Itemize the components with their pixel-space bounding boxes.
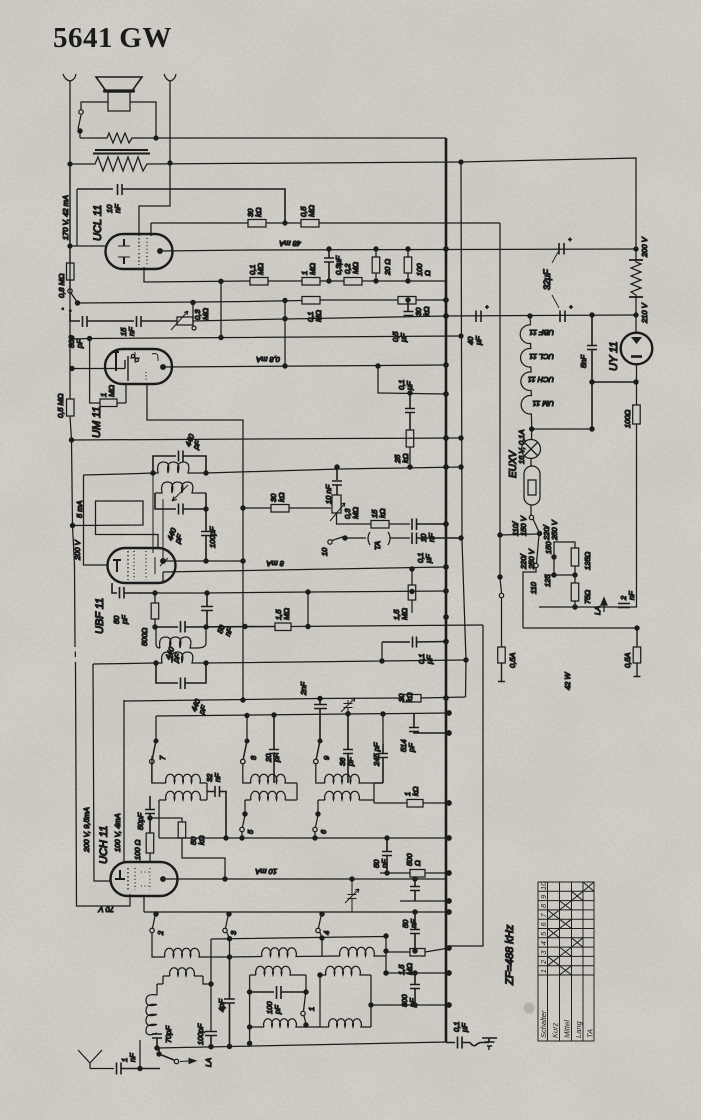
svg-text:5 mA: 5 mA [75, 500, 84, 518]
wire T2 left rail to UBF11 anode [152, 473, 154, 553]
junction [154, 136, 158, 140]
svg-text:0,5A: 0,5A [508, 653, 517, 668]
coil B2 [250, 974, 256, 976]
svg-text:UCH 11: UCH 11 [98, 826, 110, 864]
svg-text:2nF: 2nF [299, 682, 308, 696]
osc block A [152, 933, 165, 957]
resistor 30k lower [398, 297, 416, 305]
terminal fork left [63, 74, 76, 164]
svg-text:10 mA: 10 mA [255, 867, 277, 876]
capacitor 4pF [224, 957, 235, 1046]
line y438 [72, 438, 462, 440]
switch 6 [316, 815, 319, 827]
LA switch [157, 1052, 161, 1056]
svg-text:UCL 11: UCL 11 [92, 205, 104, 241]
svg-text:TA: TA [373, 541, 382, 550]
T3 secondary coil in line [93, 652, 206, 664]
LA arrow label [180, 1059, 196, 1064]
svg-text:UBF 11: UBF 11 [529, 328, 554, 337]
resistor 1,5M AVC [275, 623, 291, 631]
svg-text:50pF: 50pF [136, 812, 145, 830]
svg-text:0,3MΩ: 0,3MΩ [193, 308, 210, 320]
line 210V y316 [193, 315, 636, 321]
svg-text:Kurz: Kurz [551, 1022, 560, 1038]
X marks [583, 882, 594, 891]
capacitor 20pF [269, 715, 279, 783]
line C y281 [144, 267, 250, 282]
ground [482, 1038, 497, 1050]
selector resistor network [523, 568, 637, 628]
svg-text:245 pF: 245 pF [372, 742, 381, 767]
MAIN BUS [445, 138, 448, 1042]
resistor 100R vertical [407, 249, 409, 281]
line y1005 [371, 1004, 449, 1006]
line y338 grid UM11 [72, 336, 461, 339]
svg-text:70pF: 70pF [164, 1025, 173, 1043]
band block C [316, 764, 325, 783]
svg-text:5nF: 5nF [579, 355, 588, 368]
IF transformer T2 cap 440pF bridge [153, 451, 206, 474]
tube UBF11 [108, 548, 176, 583]
svg-text:2: 2 [539, 959, 548, 965]
svg-text:50nF: 50nF [372, 859, 389, 868]
capacitor 0,1uF col [405, 393, 415, 430]
line y393 [378, 366, 446, 394]
resistor 30k ser [403, 695, 421, 703]
band block B [243, 764, 251, 783]
svg-text:100 V, 4mA: 100 V, 4mA [113, 813, 122, 852]
ground cap 0,1uF [446, 1037, 489, 1049]
resistor R primary (zigzag) [80, 133, 446, 143]
osc coil feed [151, 756, 153, 783]
svg-text:170 V, 42 mA: 170 V, 42 mA [61, 195, 70, 240]
T2 cap 440pF bottom [155, 493, 206, 515]
svg-text:0,1MΩ: 0,1MΩ [248, 263, 265, 275]
resistor 30k vol [271, 505, 289, 513]
trimmer osc 2 [345, 879, 359, 912]
capacitor 245pF [374, 744, 388, 783]
svg-text:Mittel: Mittel [563, 1020, 572, 1038]
line 8mA y572 [163, 567, 446, 583]
capacitor 36pF [343, 714, 353, 783]
bus junctions [444, 247, 448, 251]
line 10mA y879 [166, 878, 446, 880]
resistor 0,5M [301, 220, 319, 228]
svg-text:10: 10 [539, 881, 548, 890]
svg-text:75Ω: 75Ω [583, 590, 592, 604]
line D y300 [284, 300, 286, 366]
line y714 [156, 713, 449, 716]
T3 cap 440pF bottom bridge [156, 663, 206, 689]
svg-text:30kΩ: 30kΩ [397, 692, 414, 702]
switch 3 [227, 912, 231, 916]
svg-text:Lang: Lang [574, 1020, 583, 1038]
wire T2 sec tap to diode [162, 499, 164, 561]
svg-text:1: 1 [539, 969, 548, 973]
resistor 20R vertical [375, 249, 377, 281]
svg-text:200 V: 200 V [640, 236, 649, 258]
svg-text:1,5MΩ: 1,5MΩ [392, 608, 409, 620]
switch 1 [304, 994, 306, 1011]
capacitor 1nF ant [117, 1063, 161, 1075]
ferrite coil vertical [157, 984, 163, 995]
wire speaker left to switch [81, 102, 108, 110]
junction [168, 161, 172, 165]
resistor 500R [154, 593, 156, 627]
svg-text:8 mA: 8 mA [266, 559, 284, 568]
tube UCH11 [111, 862, 178, 896]
svg-text:0,2MΩ: 0,2MΩ [343, 262, 360, 274]
fuse lamp shunt [530, 459, 532, 467]
AVC branch down [449, 625, 483, 946]
wire pot to line y524 [337, 513, 372, 524]
grid components UCH11 [145, 796, 155, 833]
svg-text:Schalter: Schalter [539, 1010, 548, 1038]
resistor 1M [302, 278, 320, 286]
line y838 [159, 837, 449, 839]
svg-text:210 V: 210 V [640, 302, 649, 324]
svg-text:100pF: 100pF [208, 526, 217, 548]
svg-text:0,8 MΩ: 0,8 MΩ [57, 273, 66, 298]
svg-text:100pF: 100pF [196, 1023, 205, 1045]
svg-text:0,5 MΩ: 0,5 MΩ [56, 393, 65, 418]
line 1,5M osc y947 [386, 951, 410, 953]
capacitor 800pF [70, 313, 134, 327]
capacitor 50nF left [382, 838, 392, 873]
T3 primary coil bridge [156, 627, 206, 648]
line y803 1k [374, 802, 407, 804]
junction [68, 162, 72, 166]
capacitor C 10nF coupling [77, 184, 285, 223]
V8 vertical [461, 162, 466, 660]
capacitor 5nF [590, 313, 594, 317]
line y303-300 grid bias line [78, 301, 302, 304]
capacitor 10nF ser [412, 519, 446, 531]
speaker [96, 77, 142, 91]
potentiometer 0,3M vol [332, 495, 341, 513]
svg-text:15kΩ: 15kΩ [370, 508, 387, 518]
capacitor 100pF in B [250, 986, 306, 999]
svg-text:70 V: 70 V [98, 905, 114, 914]
svg-text:0,5MΩ: 0,5MΩ [299, 205, 316, 217]
svg-text:0,1MΩ: 0,1MΩ [306, 310, 323, 322]
switch 9 [318, 739, 322, 743]
svg-text:30kΩ: 30kΩ [414, 306, 431, 316]
svg-text:100Ω: 100Ω [623, 409, 632, 428]
capacitor 514pF [409, 714, 449, 733]
svg-text:48 mA: 48 mA [279, 239, 301, 248]
electrolytic 32uF b [560, 305, 573, 322]
switch below 0,8M [69, 280, 71, 289]
svg-text:110: 110 [529, 581, 538, 594]
resistor 0,5M left [70, 164, 130, 906]
line 0,8mA y366 [163, 365, 446, 367]
junction [68, 244, 72, 248]
UM11 interior [72, 368, 125, 370]
screen feed path [73, 501, 159, 548]
svg-text:200 V, 9,5mA: 200 V, 9,5mA [82, 807, 91, 853]
svg-text:TA: TA [586, 1029, 595, 1038]
svg-text:ZF=488 kHz: ZF=488 kHz [504, 924, 516, 986]
electrolytic 40uF [476, 305, 489, 322]
svg-text:20 Ω: 20 Ω [383, 259, 392, 276]
tube UY11 [635, 315, 637, 333]
svg-text:15nF: 15nF [119, 327, 136, 336]
tube UM11 [105, 349, 172, 384]
voltage selector [529, 515, 533, 519]
capacitor 50nF A [410, 879, 420, 901]
capacitor 0,1uF ser [412, 533, 461, 545]
T2 secondary coil [155, 482, 206, 493]
svg-text:UBF 11: UBF 11 [94, 598, 106, 634]
junction [283, 221, 287, 225]
LA arrow mains [601, 598, 607, 612]
capacitor 10nF vol [332, 467, 342, 495]
trimmer osc top [341, 698, 355, 714]
svg-text:50nF: 50nF [401, 919, 418, 928]
line 200V y249 [160, 249, 636, 251]
TA pickup [368, 532, 390, 545]
svg-text:0,8 mA: 0,8 mA [256, 355, 280, 364]
switch 5 [243, 815, 246, 827]
resistor 1M UM11 [90, 339, 100, 404]
line y660 [206, 642, 466, 663]
wire anode up [150, 223, 152, 236]
svg-text:40μF: 40μF [466, 336, 483, 346]
switch speaker [79, 110, 83, 114]
band block A coils [152, 764, 166, 783]
capacitor 0,1uF col2 [382, 637, 446, 648]
svg-text:UM 11: UM 11 [91, 406, 103, 438]
capacitor 50nF B [410, 912, 420, 951]
capacitor 0,3uF [324, 249, 334, 281]
svg-text:0,5A: 0,5A [623, 653, 632, 668]
svg-text:150: 150 [544, 541, 553, 554]
capacitor 2nF osc [318, 696, 322, 700]
transformer core bars [93, 150, 150, 154]
svg-text:125Ω: 125Ω [583, 551, 592, 570]
bottom line LA y1048 [157, 1042, 446, 1048]
dropper zigzag [631, 249, 641, 315]
svg-text:36pF: 36pF [338, 757, 355, 767]
svg-text:32μF: 32μF [542, 269, 552, 290]
switch 8 [246, 716, 248, 741]
svg-text:UCL 11: UCL 11 [529, 352, 554, 361]
switch 2 [155, 912, 156, 916]
capacitor 50pF cathode [112, 583, 155, 599]
svg-text:2: 2 [156, 930, 165, 936]
wire UM11 out right [147, 384, 243, 700]
svg-text:125: 125 [543, 574, 552, 587]
line y627 with 440pF inline [155, 621, 275, 633]
switch 7 [155, 716, 157, 740]
capacitor 15nF [137, 316, 178, 327]
line y901 [400, 900, 449, 902]
svg-text:LA: LA [204, 1058, 213, 1067]
lamp EUXV [531, 429, 533, 440]
switch 4 [320, 912, 324, 916]
svg-text:100 Ω: 100 Ω [133, 839, 142, 860]
svg-text:30kΩ: 30kΩ [246, 207, 263, 217]
osc block C [340, 947, 386, 956]
capacitor 32nF [207, 786, 226, 838]
svg-text:50pF: 50pF [112, 615, 129, 625]
capacitor 0,5uF [404, 300, 414, 316]
svg-text:50kΩ: 50kΩ [189, 835, 206, 845]
resistor 30k [248, 220, 266, 228]
mains lead left [500, 223, 538, 535]
svg-text:5641 GW: 5641 GW [53, 22, 172, 54]
svg-text:UM 11: UM 11 [532, 399, 554, 408]
svg-text:16 V, 0,1A: 16 V, 0,1A [517, 430, 526, 464]
svg-text:20pF: 20pF [264, 753, 281, 763]
resistor 15k [371, 521, 389, 529]
svg-text:1: 1 [307, 1007, 316, 1011]
svg-text:4: 4 [322, 931, 331, 935]
capacitor 100pF osc [205, 1032, 217, 1047]
coil B3 in bottom line [250, 1026, 264, 1028]
switch 10 [328, 540, 332, 544]
electrolytic 32uF a [559, 238, 572, 255]
wire fork2 to tube grid [139, 163, 170, 236]
line y912 [144, 896, 449, 912]
tube UCL11 [106, 234, 173, 269]
svg-text:LA: LA [593, 606, 602, 615]
heater chain [529, 316, 532, 325]
svg-text:25kΩ: 25kΩ [393, 453, 410, 464]
line y700 [124, 698, 403, 701]
terminal fork right [164, 74, 176, 163]
junction [459, 160, 463, 164]
resistor 25k col [406, 430, 414, 447]
antenna [78, 1050, 114, 1069]
resistor 1,5M vertical [411, 569, 413, 613]
svg-text:30kΩ: 30kΩ [269, 492, 286, 502]
paper smudge [524, 1003, 535, 1014]
line y973 [386, 972, 449, 974]
svg-text:1,5MΩ: 1,5MΩ [274, 608, 291, 620]
resistor 0,1M lower [302, 297, 320, 305]
wire speaker right down [130, 102, 156, 138]
svg-text:500Ω: 500Ω [140, 627, 149, 646]
capacitor 800pF [410, 973, 420, 1005]
svg-text:0,3μF: 0,3μF [334, 255, 343, 275]
svg-text:32nF: 32nF [205, 773, 222, 782]
line y873 500R [380, 872, 410, 874]
svg-text:UCH 11: UCH 11 [528, 375, 554, 384]
resistor 0,8M vertical [69, 164, 71, 263]
detector line y561 [165, 560, 243, 562]
supply rails UCH11 [93, 664, 111, 881]
line y223 anode [151, 222, 248, 224]
diode load line y593 [155, 591, 446, 593]
svg-text:0,3MΩ: 0,3MΩ [343, 507, 360, 519]
svg-text:4: 4 [539, 941, 548, 945]
svg-text:42 W: 42 W [563, 672, 572, 690]
T2 primary coil in line [151, 471, 155, 475]
line y467 anode [84, 467, 462, 475]
svg-text:10: 10 [320, 547, 329, 556]
svg-text:4pF: 4pF [217, 999, 226, 1012]
resistor 0,1M [250, 278, 268, 286]
grid cap UCH11 [123, 700, 125, 863]
wire grid left [70, 189, 107, 246]
resistor R secondary (zigzag) [70, 157, 636, 249]
capacitor 2nF mains [618, 604, 630, 608]
svg-text:10nF: 10nF [105, 204, 122, 213]
mains lead right [634, 628, 641, 677]
volume cluster: line y508 [243, 507, 271, 509]
osc block B coil B1 in line [230, 956, 263, 959]
capacitor 100pF [204, 507, 208, 511]
Schalter table [538, 882, 594, 1041]
resistor 0,2M [344, 278, 362, 286]
line y933/941 [211, 937, 386, 974]
svg-text:UY 11: UY 11 [608, 341, 620, 371]
capacitor 50nF det [201, 593, 213, 627]
potentiometer 0,3M [177, 317, 193, 325]
svg-text:200 V: 200 V [73, 539, 82, 561]
resistor 100R UY11 [636, 424, 638, 607]
